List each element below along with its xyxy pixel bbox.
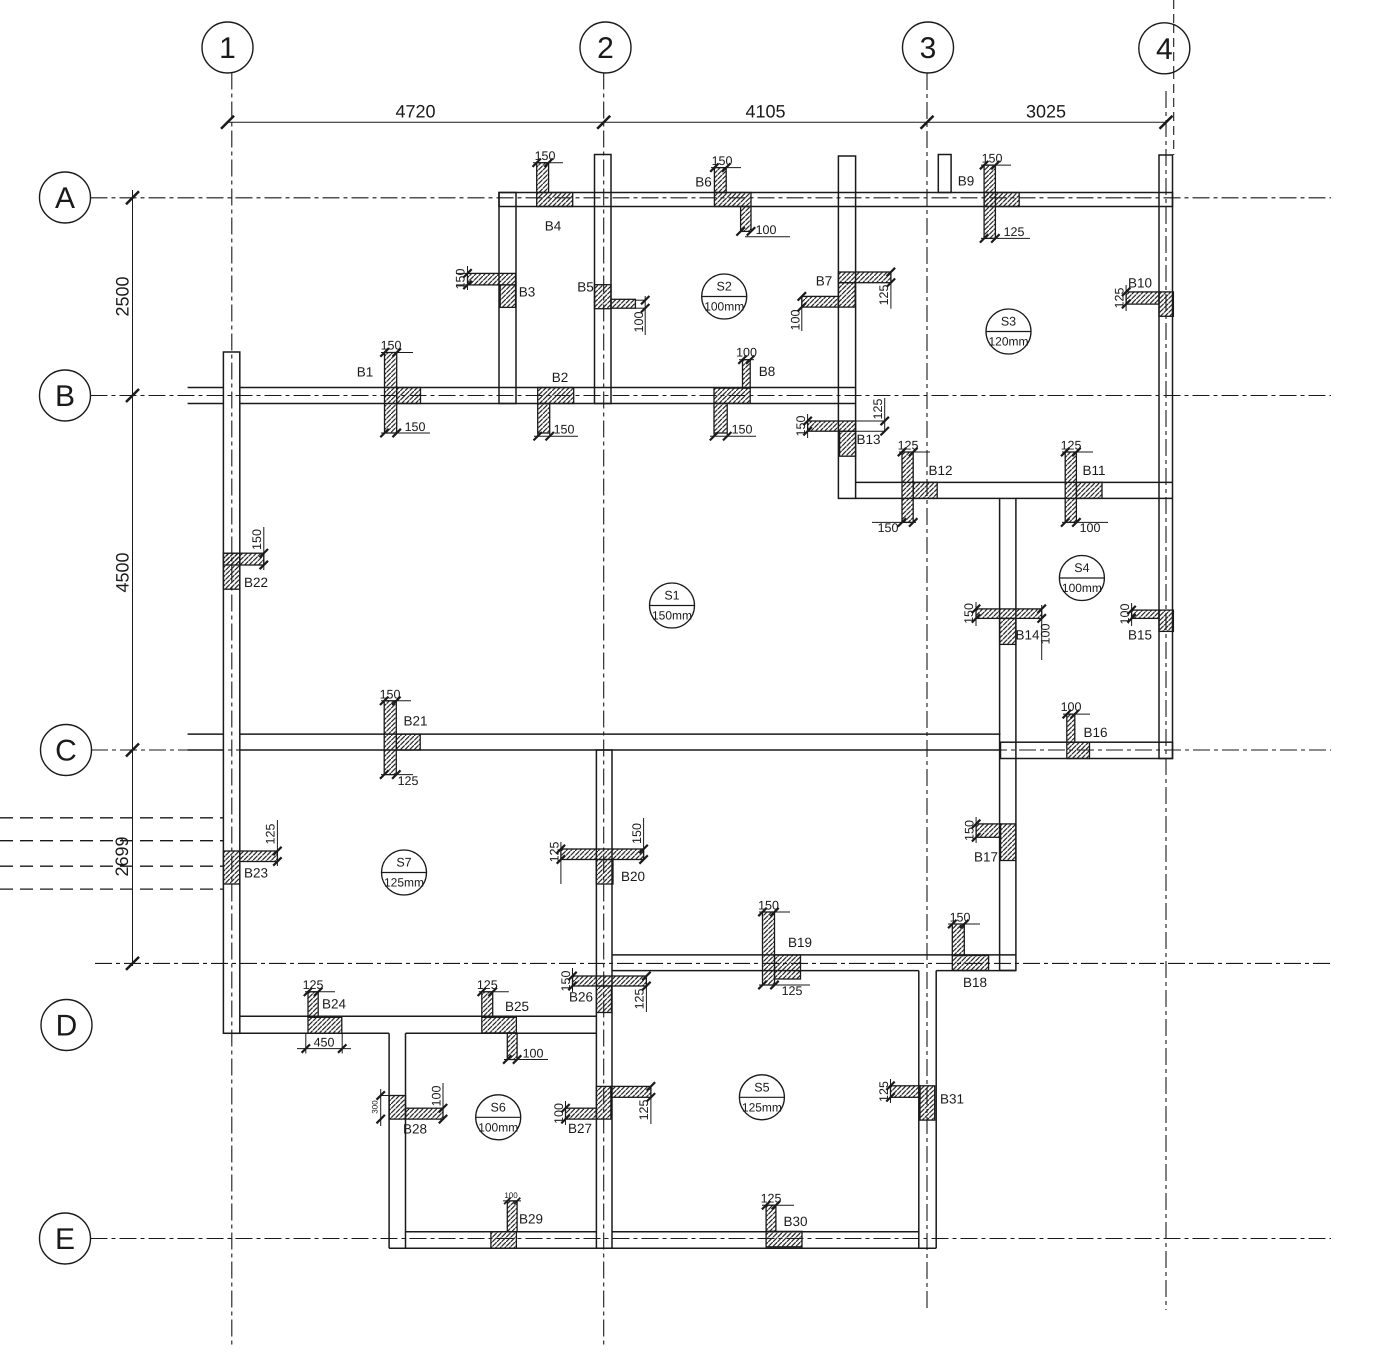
svg-text:150: 150 <box>381 339 402 353</box>
grid line B <box>91 395 1332 397</box>
svg-text:150: 150 <box>982 151 1003 165</box>
svg-text:125mm: 125mm <box>384 876 424 890</box>
slab label S4 <box>1059 556 1104 601</box>
svg-text:125: 125 <box>761 1192 782 1206</box>
grid bubble 4 <box>1139 23 1190 74</box>
beam B5 <box>577 280 649 336</box>
svg-text:B16: B16 <box>1083 725 1107 740</box>
grid line 1 <box>231 73 233 1346</box>
beam B1 <box>357 339 430 438</box>
svg-text:1: 1 <box>219 32 236 65</box>
grid bubble 1 <box>202 22 253 73</box>
svg-text:B20: B20 <box>621 869 645 884</box>
svg-text:150: 150 <box>878 521 899 535</box>
wall on grid B <box>188 388 856 404</box>
svg-text:B25: B25 <box>505 999 529 1014</box>
grid bubble A <box>40 172 91 223</box>
wall between S5 and B18 corner <box>612 955 1016 971</box>
beam B14 <box>962 602 1052 660</box>
svg-text:B1: B1 <box>357 365 374 380</box>
svg-text:125: 125 <box>303 978 324 992</box>
svg-text:100: 100 <box>736 346 757 360</box>
beam B8 <box>710 346 775 441</box>
svg-text:B9: B9 <box>958 174 975 189</box>
svg-text:125mm: 125mm <box>742 1100 782 1114</box>
beam B29 <box>491 1191 543 1248</box>
svg-text:B31: B31 <box>940 1092 964 1107</box>
wall S7 bottom / S6 top <box>223 1016 596 1033</box>
beam B19 <box>758 898 812 998</box>
svg-text:125: 125 <box>877 285 891 306</box>
beam B31 <box>877 1079 964 1120</box>
grid line A <box>91 197 1332 199</box>
svg-text:B8: B8 <box>759 364 776 379</box>
wall stub above A near grid 3 <box>938 155 951 193</box>
svg-text:150: 150 <box>794 416 808 437</box>
svg-text:150: 150 <box>732 423 753 437</box>
svg-text:150: 150 <box>758 898 779 912</box>
svg-text:100: 100 <box>552 1103 566 1124</box>
svg-text:3025: 3025 <box>1026 102 1066 122</box>
beam B13 <box>794 398 889 456</box>
dashed line through bubble 4 <box>1173 24 1175 73</box>
left dimension line <box>112 190 139 970</box>
grid line E <box>91 1238 1332 1240</box>
slab label S3 <box>986 309 1031 354</box>
svg-text:150: 150 <box>405 420 426 434</box>
beam B16 <box>1061 700 1108 758</box>
svg-text:100: 100 <box>788 310 802 331</box>
svg-text:B: B <box>55 380 75 413</box>
svg-text:4500: 4500 <box>113 552 133 592</box>
wall on grid 1 (left wall of S1/S7) <box>223 352 239 1033</box>
beam B7 <box>788 268 895 331</box>
svg-text:100mm: 100mm <box>704 300 744 314</box>
beam B20 <box>547 818 647 884</box>
beam B18 <box>948 910 989 990</box>
svg-text:B7: B7 <box>816 274 833 289</box>
beam B28 <box>370 1083 447 1137</box>
grid bubble 3 <box>903 22 954 73</box>
svg-text:125: 125 <box>398 774 419 788</box>
grid line 2 <box>603 73 605 1346</box>
svg-text:4: 4 <box>1156 33 1173 66</box>
svg-text:125: 125 <box>1112 288 1126 309</box>
grid bubble C <box>41 725 92 776</box>
svg-text:125: 125 <box>1004 225 1025 239</box>
svg-text:100: 100 <box>429 1086 443 1107</box>
svg-text:100: 100 <box>1061 700 1082 714</box>
beam B3 <box>453 266 535 307</box>
svg-text:125: 125 <box>871 399 885 420</box>
grid line 3 <box>926 73 928 1310</box>
svg-text:150mm: 150mm <box>652 609 692 623</box>
svg-text:150: 150 <box>712 154 733 168</box>
svg-text:S7: S7 <box>396 856 411 870</box>
svg-text:150: 150 <box>380 687 401 701</box>
grid bubble B <box>40 370 91 421</box>
svg-text:125: 125 <box>782 984 803 998</box>
svg-text:A: A <box>55 182 75 215</box>
svg-text:100: 100 <box>632 312 646 333</box>
top outer wall on grid A <box>499 193 1173 207</box>
svg-text:E: E <box>55 1223 75 1256</box>
svg-text:125: 125 <box>877 1081 891 1102</box>
wall S5 right (on grid 3) <box>919 971 936 1249</box>
grid bubble 2 <box>580 22 631 73</box>
beam B30 <box>761 1192 808 1247</box>
svg-text:100: 100 <box>504 1191 518 1200</box>
svg-text:D: D <box>56 1010 78 1043</box>
svg-text:150: 150 <box>962 603 976 624</box>
svg-text:B6: B6 <box>695 175 712 190</box>
svg-text:B14: B14 <box>1015 628 1040 643</box>
svg-text:125: 125 <box>633 989 647 1010</box>
svg-text:100: 100 <box>1080 521 1101 535</box>
svg-text:B15: B15 <box>1128 628 1152 643</box>
wall left of B4 room <box>499 193 516 404</box>
svg-text:125: 125 <box>264 824 278 845</box>
svg-text:100: 100 <box>756 223 777 237</box>
svg-text:100: 100 <box>1039 624 1053 645</box>
svg-text:C: C <box>55 735 77 768</box>
svg-text:B26: B26 <box>569 990 593 1005</box>
svg-text:150: 150 <box>559 971 573 992</box>
wall on grid C left segment <box>188 734 1001 750</box>
svg-text:300: 300 <box>370 1100 379 1114</box>
svg-text:B11: B11 <box>1082 463 1105 478</box>
wall on grid 4 (right outer wall) <box>1159 155 1173 759</box>
svg-text:2699: 2699 <box>112 836 132 876</box>
wall S4 left <box>1000 498 1016 970</box>
svg-text:4720: 4720 <box>395 102 435 122</box>
svg-text:3: 3 <box>920 32 937 65</box>
svg-text:450: 450 <box>314 1036 335 1050</box>
svg-text:125: 125 <box>898 438 919 452</box>
svg-text:150: 150 <box>630 823 644 844</box>
beam B4 <box>533 149 573 234</box>
beam B12 <box>872 438 953 535</box>
svg-text:S5: S5 <box>754 1080 769 1094</box>
wall on grid 2 lower (S7/S6 right, S5 left wall) <box>596 750 612 1248</box>
svg-text:B30: B30 <box>783 1214 807 1229</box>
svg-text:125: 125 <box>477 978 498 992</box>
svg-text:100mm: 100mm <box>478 1120 518 1134</box>
intermediate grid line between C and D <box>95 962 1331 964</box>
beam B21 <box>380 687 428 788</box>
svg-text:B24: B24 <box>322 997 347 1012</box>
svg-text:S1: S1 <box>664 589 679 603</box>
beam B22 <box>223 527 268 590</box>
wall between S2 and S3 <box>838 156 855 498</box>
svg-text:B2: B2 <box>552 370 569 385</box>
svg-text:125: 125 <box>547 842 561 863</box>
svg-text:S3: S3 <box>1001 315 1016 329</box>
svg-text:S4: S4 <box>1074 561 1089 575</box>
svg-text:B10: B10 <box>1128 276 1152 291</box>
slab label S6 <box>476 1095 521 1140</box>
svg-text:B21: B21 <box>403 714 427 729</box>
svg-text:150: 150 <box>950 910 971 924</box>
svg-text:S6: S6 <box>491 1100 506 1114</box>
grid bubble D <box>41 1000 92 1051</box>
svg-text:B5: B5 <box>577 280 594 295</box>
svg-text:125: 125 <box>637 1100 651 1121</box>
svg-text:150: 150 <box>535 149 556 163</box>
beam B6 <box>695 154 790 237</box>
svg-text:B22: B22 <box>244 575 268 590</box>
svg-text:100: 100 <box>523 1047 544 1061</box>
svg-text:B3: B3 <box>519 285 536 300</box>
beam B15 <box>1118 603 1174 643</box>
svg-text:4105: 4105 <box>745 102 785 122</box>
svg-text:B27: B27 <box>568 1121 592 1136</box>
svg-text:B23: B23 <box>244 866 268 881</box>
beam B10 <box>1112 276 1173 317</box>
svg-text:2500: 2500 <box>113 276 133 316</box>
top dimension line <box>221 102 1173 129</box>
svg-text:B18: B18 <box>963 975 987 990</box>
beam B27 <box>552 1082 655 1136</box>
slab label S5 <box>739 1075 784 1120</box>
svg-text:B13: B13 <box>856 432 880 447</box>
svg-text:B29: B29 <box>519 1212 543 1227</box>
slab label S1 <box>650 583 695 628</box>
beam B2 <box>534 370 579 440</box>
svg-text:S2: S2 <box>717 280 732 294</box>
wall below B right (S4 top) <box>856 482 1173 498</box>
svg-text:B28: B28 <box>403 1122 427 1137</box>
slab label S7 <box>382 850 427 895</box>
svg-text:125: 125 <box>1061 438 1082 452</box>
svg-text:120mm: 120mm <box>988 335 1028 349</box>
svg-text:150: 150 <box>250 529 264 550</box>
slab label S2 <box>702 274 747 319</box>
svg-text:B12: B12 <box>928 463 952 478</box>
svg-text:150: 150 <box>554 423 575 437</box>
beam B9 <box>958 151 1030 242</box>
wall S6 left <box>389 1033 405 1248</box>
svg-text:150: 150 <box>962 820 976 841</box>
grid line 4 <box>1166 0 1174 1310</box>
bottom wall S6/S5 on grid E <box>389 1232 936 1248</box>
svg-text:150: 150 <box>453 269 467 290</box>
wall on grid 2 upper (S2 left wall) <box>595 155 612 404</box>
beam B25 <box>477 978 548 1064</box>
wall on grid C right segment (S4 bottom) <box>1001 742 1173 758</box>
svg-text:2: 2 <box>597 32 614 65</box>
svg-text:B4: B4 <box>545 219 562 234</box>
beam B24 <box>297 978 351 1053</box>
grid bubble E <box>40 1213 91 1264</box>
beam B26 <box>559 968 651 1013</box>
grid line C <box>91 749 1331 751</box>
beam B11 <box>1061 438 1108 535</box>
beam B17 <box>962 817 1016 865</box>
svg-text:100mm: 100mm <box>1062 581 1102 595</box>
beam B23 <box>223 820 281 884</box>
svg-text:B19: B19 <box>788 935 812 950</box>
svg-text:100: 100 <box>1118 604 1132 625</box>
stair dashed lines <box>0 818 223 889</box>
svg-text:B17: B17 <box>974 850 998 865</box>
